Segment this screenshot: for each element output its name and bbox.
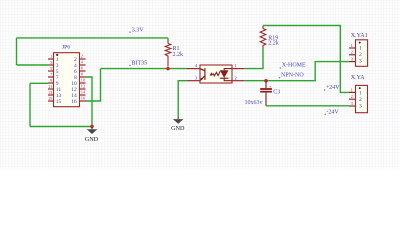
- svg-text:NPN-NO: NPN-NO: [281, 72, 304, 78]
- svg-text:1: 1: [351, 87, 353, 92]
- wire 3.3V to JP6 pin 3: [17, 64, 49, 66]
- svg-text:JP6: JP6: [62, 44, 70, 50]
- svg-text:1: 1: [351, 43, 353, 48]
- junction R1/BIT35: [166, 67, 169, 70]
- svg-text:13: 13: [48, 90, 52, 95]
- svg-text:3: 3: [50, 60, 52, 65]
- wire opto pin1 to R19: [244, 49, 263, 69]
- svg-text:3: 3: [351, 57, 353, 62]
- JP6 pin-1 marker dot: [56, 54, 58, 56]
- light arrow head: [210, 72, 214, 76]
- svg-text:15: 15: [56, 99, 62, 105]
- wire opto pin3 to GND: [178, 81, 187, 117]
- light squiggle arrow: [213, 71, 220, 76]
- svg-text:1: 1: [359, 90, 362, 96]
- X.YA1 pin stubs 1-3: [349, 48, 356, 62]
- svg-text:3: 3: [359, 58, 362, 64]
- connector X.YA: [349, 75, 368, 113]
- svg-text:15: 15: [48, 96, 52, 101]
- X.YA1 red pin numbers 1-3: [351, 43, 353, 62]
- wire BIT35 horizontal: [101, 68, 188, 70]
- svg-text:X.YA: X.YA: [351, 75, 366, 81]
- svg-text:2: 2: [235, 75, 237, 80]
- wire left loop vertical: [29, 83, 31, 126]
- blue pin names right column: [71, 57, 77, 105]
- capacitor C3: [260, 81, 272, 106]
- phototransistor: [200, 68, 205, 80]
- svg-text:BIT35: BIT35: [132, 60, 148, 66]
- wire 3.3V top rail: [17, 37, 169, 39]
- svg-text:GND: GND: [85, 136, 99, 143]
- svg-text:1: 1: [359, 45, 362, 51]
- svg-text:X.YA1: X.YA1: [351, 33, 368, 39]
- blue pin names left column: [56, 57, 62, 105]
- red pin numbers left: [48, 54, 53, 101]
- svg-text:2: 2: [81, 54, 83, 59]
- connector X.YA1: [349, 33, 368, 66]
- X.YA1 blue pin names 1-3: [359, 45, 362, 64]
- wire JP6 pin 16 to BIT35: [86, 69, 101, 101]
- svg-text:3.3V: 3.3V: [132, 28, 145, 34]
- svg-text:8: 8: [81, 72, 83, 77]
- X.YA blue pin names 1-3: [359, 90, 362, 109]
- connector JP6: [48, 44, 86, 106]
- wire 3.3V left vertical: [16, 38, 18, 65]
- red pin numbers right: [81, 54, 86, 101]
- pin stubs: [187, 69, 244, 81]
- wire C3 to -24V rail: [266, 105, 349, 107]
- svg-text:2.2k: 2.2k: [173, 52, 184, 58]
- phototransistor emitter arrow: [201, 78, 204, 81]
- pin numbers: [195, 63, 237, 80]
- svg-text:+24V: +24V: [326, 85, 340, 91]
- svg-text:12: 12: [81, 84, 85, 89]
- svg-text:GND: GND: [171, 125, 185, 132]
- svg-text:10: 10: [81, 78, 85, 83]
- svg-text:1: 1: [235, 63, 237, 68]
- pin stubs right: [80, 59, 86, 101]
- resistor R19: [260, 26, 266, 49]
- svg-text:3: 3: [359, 103, 362, 109]
- optocoupler U: [187, 63, 244, 83]
- X.YA1 pin-1 marker dot: [359, 42, 361, 44]
- pin stubs left: [48, 59, 54, 101]
- X.YA pin-1 marker dot: [359, 87, 361, 89]
- svg-text:1: 1: [50, 54, 52, 59]
- wire JP6 pin 9 to left loop: [30, 82, 48, 84]
- ground GND2 (middle): [171, 117, 185, 132]
- svg-text:16: 16: [71, 99, 77, 105]
- svg-text:9: 9: [50, 78, 52, 83]
- svg-text:3: 3: [351, 101, 353, 106]
- svg-text:X-HOME: X-HOME: [282, 62, 306, 68]
- wire bottom GND rail: [30, 126, 92, 128]
- LED: [224, 69, 232, 71]
- svg-text:5: 5: [50, 66, 52, 71]
- wire JP6 pin 8 down to GND: [86, 77, 93, 127]
- background grid: [0, 0, 400, 169]
- wire R19 top rail to X.YA right: [263, 26, 349, 93]
- resistor R1: [165, 41, 171, 67]
- svg-text:2.2k: 2.2k: [268, 41, 279, 47]
- X.YA pin stubs 1-3: [349, 92, 356, 106]
- svg-text:10x63v: 10x63v: [245, 100, 263, 106]
- wire R1 top stub: [167, 38, 169, 41]
- svg-text:C3: C3: [273, 90, 280, 96]
- svg-text:2: 2: [351, 50, 353, 55]
- svg-text:+: +: [269, 84, 272, 89]
- junction GND net at pin 8 drop: [90, 125, 93, 128]
- wire opto pin2 +24V rail: [244, 62, 349, 81]
- svg-text:2: 2: [359, 52, 362, 58]
- svg-text:2: 2: [351, 94, 353, 99]
- junction C3 tap on +24V rail: [264, 79, 267, 82]
- ground GND1 (left): [85, 127, 99, 144]
- svg-text:-24V: -24V: [326, 110, 339, 116]
- X.YA red pin numbers 1-3: [351, 87, 353, 106]
- svg-text:11: 11: [48, 84, 52, 89]
- svg-text:2: 2: [359, 97, 362, 103]
